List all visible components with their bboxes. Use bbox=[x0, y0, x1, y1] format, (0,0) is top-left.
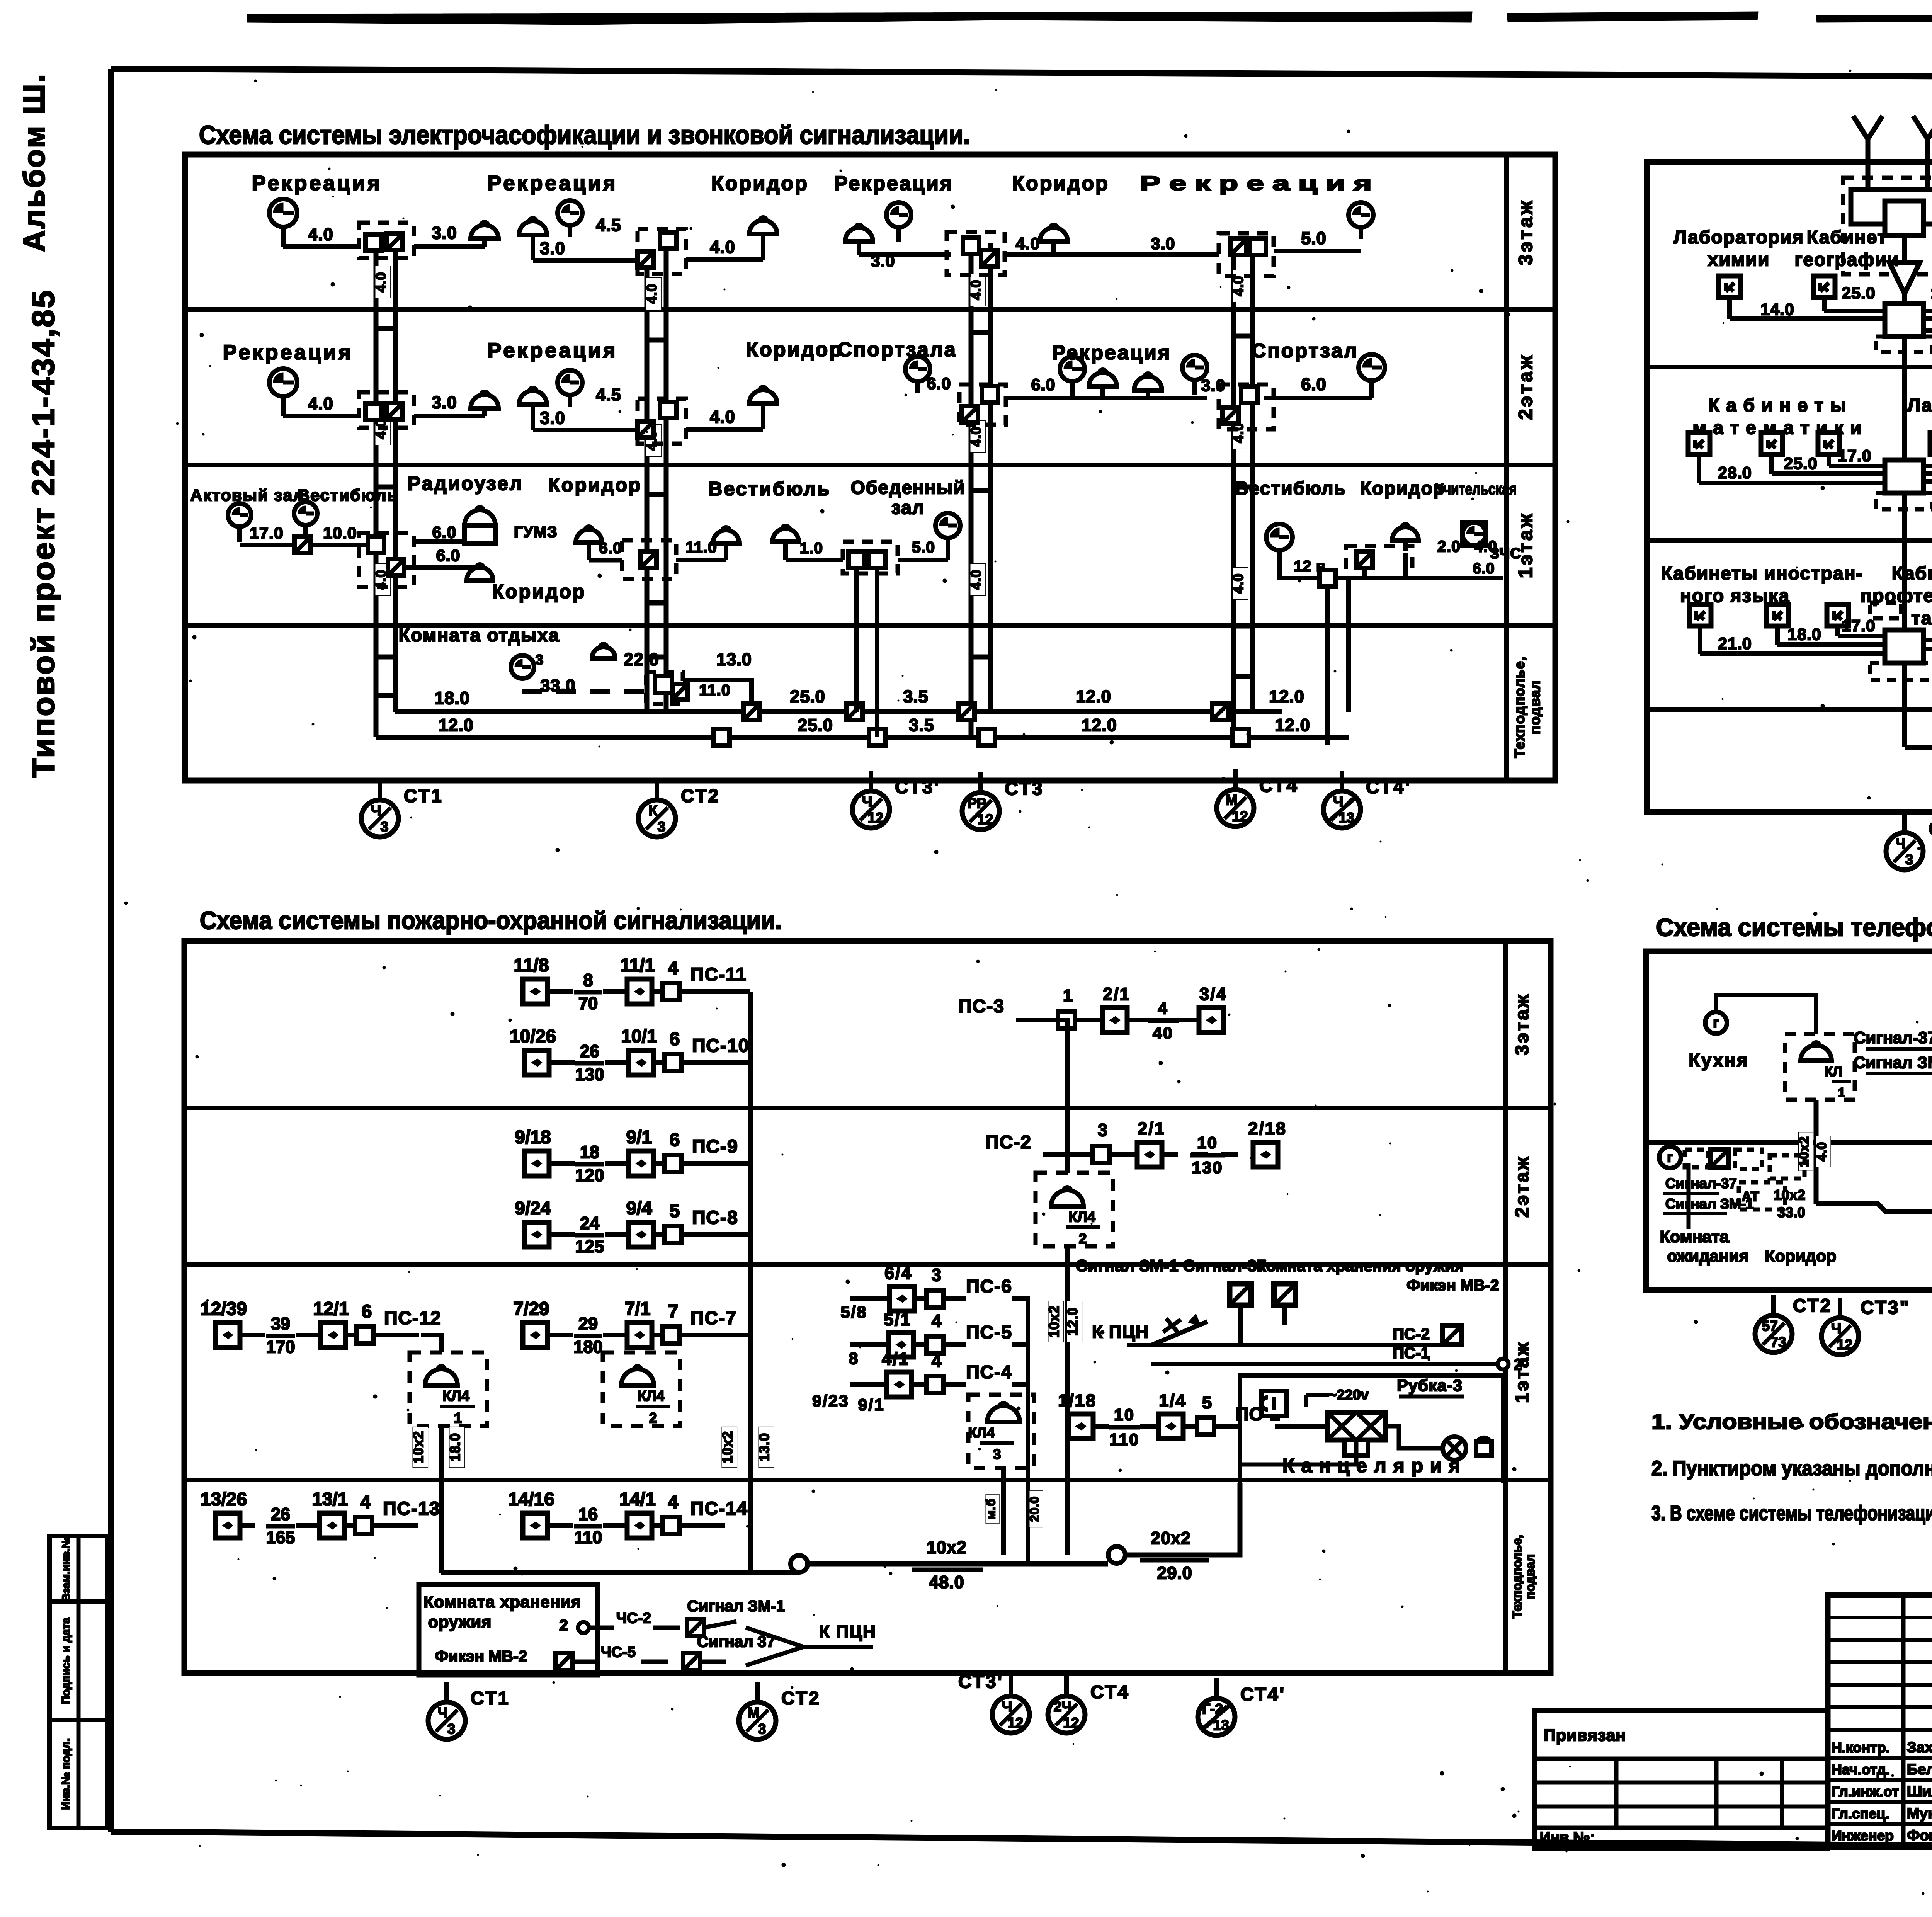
svg-text:СТ1: СТ1 bbox=[1929, 819, 1932, 839]
svg-text:М: М bbox=[748, 1705, 760, 1721]
svg-text:Гл.инж.от: Гл.инж.от bbox=[1832, 1784, 1899, 1800]
wire box to bell 3fl-1 bbox=[414, 244, 485, 249]
svg-text:ПС-8: ПС-8 bbox=[692, 1208, 738, 1228]
fire box items2 bbox=[435, 1633, 775, 1670]
svg-text:1: 1 bbox=[454, 1410, 462, 1426]
svg-text:ПС-6: ПС-6 bbox=[966, 1276, 1012, 1297]
svg-text:3: 3 bbox=[1905, 852, 1913, 867]
tv distributor 2fl-l bbox=[1876, 460, 1932, 509]
fire chain ПС-1 bbox=[1058, 1391, 1306, 1449]
phone stations bbox=[1755, 1295, 1832, 1352]
svg-text:120: 120 bbox=[575, 1165, 604, 1185]
clock 1fl-2 bbox=[294, 502, 317, 542]
svg-text:6.0: 6.0 bbox=[1473, 560, 1495, 577]
fire riser KL4-3 bbox=[1001, 1468, 1006, 1555]
title block revision grid bbox=[1828, 1595, 1932, 1847]
clock floor label column bbox=[1504, 155, 1509, 781]
station CT1 bbox=[361, 780, 443, 837]
junction 1fl lower bbox=[388, 559, 404, 575]
fire chain ПС-7 bbox=[513, 1299, 737, 1357]
wire 1fl-r drop1 bbox=[1325, 586, 1330, 745]
svg-text:Кабинет: Кабинет bbox=[1807, 227, 1887, 248]
svg-text:170: 170 bbox=[266, 1337, 295, 1357]
svg-text:АТ: АТ bbox=[1742, 1189, 1759, 1204]
riser tie marks bbox=[1233, 334, 1253, 339]
phone riser1 labels bbox=[1797, 1132, 1813, 1171]
svg-text:ПС-11: ПС-11 bbox=[690, 964, 747, 985]
svg-text:24: 24 bbox=[580, 1213, 599, 1233]
tv distributor 3fl-l bbox=[1876, 303, 1932, 352]
svg-text:Сигнал-37: Сигнал-37 bbox=[1665, 1175, 1737, 1191]
svg-text:Рубка-3: Рубка-3 bbox=[1397, 1376, 1463, 1395]
fire divider 2/1 bbox=[184, 1262, 1551, 1267]
wire 3fl-3 right1 bbox=[1054, 252, 1219, 257]
svg-text:10х2: 10х2 bbox=[1046, 1305, 1062, 1338]
svg-text:26: 26 bbox=[271, 1504, 290, 1524]
fire riser collector bbox=[748, 992, 753, 1573]
svg-text:4.0: 4.0 bbox=[1016, 235, 1040, 253]
svg-text:110: 110 bbox=[1109, 1431, 1139, 1449]
svg-text:6/4: 6/4 bbox=[884, 1263, 912, 1283]
svg-text:2.0: 2.0 bbox=[1437, 538, 1461, 555]
svg-text:3/4: 3/4 bbox=[1199, 984, 1227, 1004]
clock 2fl-3l bbox=[905, 357, 930, 393]
wire 2fl-3 bbox=[1006, 396, 1207, 400]
svg-text:10/1: 10/1 bbox=[621, 1026, 657, 1047]
svg-text:СТ3: СТ3 bbox=[1005, 779, 1044, 799]
svg-text:8: 8 bbox=[849, 1349, 859, 1368]
svg-text:4: 4 bbox=[932, 1351, 942, 1371]
riser tie marks bbox=[376, 326, 395, 331]
dashed junction box 3fl-1 bbox=[359, 223, 414, 258]
svg-text:1/4: 1/4 bbox=[1159, 1391, 1187, 1410]
svg-text:Шилов: Шилов bbox=[1907, 1783, 1932, 1800]
phone riser1 bbox=[1814, 1100, 1819, 1204]
svg-text:9/24: 9/24 bbox=[515, 1198, 551, 1219]
fire bell KL4-1 bbox=[410, 1352, 487, 1426]
svg-text:13.0: 13.0 bbox=[716, 650, 752, 669]
tv outlet r2-3 bbox=[1818, 433, 1840, 454]
svg-text:Фикэн МВ-2: Фикэн МВ-2 bbox=[435, 1647, 527, 1665]
fire chain ПС-3 3fl bbox=[958, 984, 1227, 1043]
title block outer bbox=[1828, 1595, 1932, 1847]
svg-text:2Ч: 2Ч bbox=[1054, 1699, 1072, 1715]
fire stations bbox=[428, 1682, 510, 1739]
fire K PCN arrow bbox=[746, 1622, 876, 1665]
svg-text:18.0: 18.0 bbox=[1787, 625, 1821, 644]
svg-text:Захарова: Захарова bbox=[1907, 1739, 1932, 1756]
phone Кухня bbox=[1689, 995, 1816, 1071]
svg-text:3: 3 bbox=[932, 1265, 942, 1285]
svg-text:2этаж: 2этаж bbox=[1512, 1155, 1532, 1218]
svg-text:57: 57 bbox=[1762, 1318, 1777, 1334]
svg-text:3этаж: 3этаж bbox=[1515, 199, 1536, 265]
dashed junction box 3fl-4 bbox=[1219, 233, 1274, 276]
svg-text:Ч: Ч bbox=[371, 803, 381, 818]
phone outer box bbox=[1646, 951, 1932, 1290]
svg-text:3.5: 3.5 bbox=[903, 687, 929, 706]
svg-text:Обеденный: Обеденный bbox=[850, 478, 965, 498]
tv outer box bbox=[1647, 162, 1932, 812]
svg-text:7/1: 7/1 bbox=[625, 1299, 651, 1319]
svg-text:Коридор: Коридор bbox=[492, 581, 586, 602]
svg-text:ПС-14: ПС-14 bbox=[690, 1499, 748, 1519]
wire junctions lower bbox=[713, 729, 730, 745]
svg-text:9/1: 9/1 bbox=[626, 1127, 652, 1148]
junction cluster basement bbox=[646, 672, 688, 704]
svg-text:СТ2: СТ2 bbox=[781, 1688, 820, 1709]
svg-text:2: 2 bbox=[1079, 1231, 1087, 1247]
fire label подвал bbox=[1510, 1535, 1537, 1619]
svg-text:4.0: 4.0 bbox=[1815, 1142, 1829, 1161]
fire junction circle bbox=[791, 1555, 808, 1572]
dashed wire basement bbox=[522, 689, 646, 694]
fire wire ПС-2 drop bbox=[1065, 1155, 1070, 1173]
svg-text:4.0: 4.0 bbox=[308, 394, 333, 413]
fire junction circle2 bbox=[1108, 1546, 1125, 1563]
tv outlet r3-1 bbox=[1719, 276, 1740, 298]
tv station CT1 bbox=[1886, 813, 1932, 870]
clock 3fl-2 bbox=[558, 201, 582, 237]
svg-text:12/39: 12/39 bbox=[201, 1299, 247, 1319]
dashed junction box 3fl-2 bbox=[638, 229, 686, 274]
svg-text:М: М bbox=[1226, 792, 1238, 808]
svg-text:11/8: 11/8 bbox=[514, 955, 549, 976]
svg-text:2. Пунктиром указаны дополнени: 2. Пунктиром указаны дополнения для вари… bbox=[1651, 1457, 1932, 1480]
svg-text:12.0: 12.0 bbox=[1082, 715, 1117, 735]
svg-text:4/1: 4/1 bbox=[882, 1349, 910, 1369]
wire 2fl-4 bbox=[1264, 396, 1372, 400]
svg-text:Ч: Ч bbox=[1896, 835, 1906, 851]
svg-text:26: 26 bbox=[580, 1041, 599, 1061]
fire chain ПС-14 basement bbox=[508, 1489, 748, 1547]
svg-text:6.0: 6.0 bbox=[436, 546, 461, 565]
svg-text:Привязан: Привязан bbox=[1544, 1726, 1626, 1745]
clock 2fl-3n bbox=[1182, 355, 1207, 395]
svg-text:14.0: 14.0 bbox=[1760, 300, 1794, 319]
svg-text:1. Условные обозначения см. ли: 1. Условные обозначения см. лист СС-2. bbox=[1651, 1409, 1932, 1434]
tv bus 3fl left bbox=[1730, 316, 1885, 321]
svg-text:2: 2 bbox=[649, 1410, 657, 1426]
svg-text:Кабинеты иностран-: Кабинеты иностран- bbox=[1661, 563, 1863, 584]
tv outlet r2-2 bbox=[1761, 433, 1782, 454]
riser CT1 lines bbox=[376, 243, 395, 737]
svg-text:5: 5 bbox=[1202, 1393, 1213, 1412]
tv floor divider 1/bas bbox=[1647, 707, 1932, 712]
tv basement wire 18.0 bbox=[1905, 745, 1932, 750]
svg-text:6.0: 6.0 bbox=[432, 523, 457, 542]
svg-text:12/1: 12/1 bbox=[313, 1299, 349, 1319]
svg-text:8: 8 bbox=[583, 970, 593, 990]
riser cable size labels bbox=[968, 274, 986, 306]
svg-text:165: 165 bbox=[266, 1527, 295, 1547]
svg-text:КЛ4: КЛ4 bbox=[968, 1425, 995, 1441]
svg-text:125: 125 bbox=[575, 1237, 604, 1256]
wire 1fl-1 bbox=[240, 543, 375, 547]
tv antenna 2 bbox=[1913, 116, 1932, 166]
junction 1fl-r bbox=[1356, 552, 1372, 568]
svg-text:20х2: 20х2 bbox=[1151, 1528, 1191, 1548]
fire weapons room box bbox=[419, 1585, 598, 1675]
fire chain ПС-9 bbox=[515, 1127, 738, 1185]
riser tie marks bbox=[647, 338, 666, 343]
svg-text:Ч: Ч bbox=[1333, 794, 1343, 810]
attach table bbox=[1534, 1710, 1828, 1849]
fire riser KL4-1 labels bbox=[410, 1427, 428, 1467]
dashed box 1fl-r bbox=[1346, 546, 1412, 578]
wire 2fl-2 r bbox=[686, 427, 763, 432]
svg-text:3.0: 3.0 bbox=[432, 393, 457, 412]
bell 3fl-3a bbox=[845, 225, 873, 255]
fire security wires bbox=[1127, 1306, 1524, 1373]
svg-text:ПС-4: ПС-4 bbox=[966, 1362, 1012, 1383]
svg-text:Кухня: Кухня bbox=[1689, 1050, 1748, 1071]
svg-text:г: г bbox=[1667, 1149, 1673, 1165]
svg-text:11.0: 11.0 bbox=[699, 681, 731, 699]
svg-text:Коридор: Коридор bbox=[1360, 478, 1446, 499]
long wire lower bbox=[376, 735, 1349, 740]
svg-text:СТ4: СТ4 bbox=[1090, 1682, 1129, 1703]
svg-text:4: 4 bbox=[932, 1311, 942, 1331]
tv antenna 1 bbox=[1853, 116, 1883, 166]
svg-text:подвал: подвал bbox=[1527, 680, 1543, 734]
svg-text:6.0: 6.0 bbox=[927, 374, 951, 393]
clock 1fl-1 bbox=[228, 503, 251, 542]
svg-text:17.0: 17.0 bbox=[1930, 284, 1932, 303]
junction boxes 3fl-3 bbox=[963, 238, 979, 254]
svg-text:ЧС-5: ЧС-5 bbox=[601, 1644, 636, 1660]
bell 2fl-3m bbox=[1089, 369, 1117, 398]
svg-text:Комната хранения оружия: Комната хранения оружия bbox=[1257, 1257, 1464, 1275]
fire K PCN arrow 1fl bbox=[1092, 1314, 1207, 1345]
clock 2fl-3m bbox=[1060, 357, 1085, 397]
fire divider 3/2 bbox=[184, 1106, 1551, 1110]
svg-text:12: 12 bbox=[1837, 1337, 1852, 1352]
svg-text:оружия: оружия bbox=[428, 1613, 492, 1631]
wire 1fl-r drop2 bbox=[1346, 578, 1351, 712]
svg-text:СТ3': СТ3' bbox=[958, 1672, 1003, 1692]
wire 3fl-3 bbox=[859, 252, 951, 257]
fire divider 1/bas bbox=[184, 1478, 1551, 1482]
svg-text:Коридор: Коридор bbox=[711, 172, 809, 195]
junction box bbox=[366, 235, 382, 251]
svg-text:КЛ4: КЛ4 bbox=[638, 1388, 665, 1404]
tv splitter triangle bbox=[1889, 263, 1920, 317]
svg-text:4.0: 4.0 bbox=[968, 279, 984, 300]
tv distributor 1fl bbox=[1870, 603, 1932, 680]
svg-text:12.0: 12.0 bbox=[1065, 1307, 1080, 1336]
antenna down-leads bbox=[1851, 145, 1932, 224]
wire 1fl-r bbox=[1279, 550, 1503, 578]
phone divider bbox=[1646, 1140, 1932, 1145]
fire basement wire right2 bbox=[1125, 1483, 1240, 1555]
svg-text:25.0: 25.0 bbox=[1784, 454, 1818, 473]
bell basement bbox=[592, 644, 615, 658]
svg-text:17.0: 17.0 bbox=[1838, 447, 1872, 465]
bell 2fl-3n bbox=[1134, 373, 1162, 398]
junction 1fl-v bbox=[849, 552, 865, 568]
svg-text:Схема системы телефонизации.: Схема системы телефонизации. bbox=[1656, 913, 1932, 941]
svg-text:Спортзал: Спортзал bbox=[1252, 340, 1358, 362]
svg-text:ПС-9: ПС-9 bbox=[692, 1136, 738, 1157]
svg-text:16: 16 bbox=[578, 1504, 598, 1524]
svg-text:3.0: 3.0 bbox=[540, 238, 565, 258]
dashed box 1fl bbox=[359, 533, 414, 587]
svg-text:Инженер: Инженер bbox=[1832, 1828, 1894, 1844]
svg-text:4: 4 bbox=[668, 958, 679, 978]
svg-text:25.0: 25.0 bbox=[1842, 284, 1876, 303]
svg-text:7: 7 bbox=[668, 1301, 679, 1322]
svg-text:4.0: 4.0 bbox=[644, 283, 660, 304]
fire rubka label bbox=[1397, 1376, 1464, 1397]
svg-text:2этаж: 2этаж bbox=[1515, 353, 1536, 420]
svg-text:25.0: 25.0 bbox=[798, 715, 833, 735]
tv riser1 bbox=[1902, 337, 1907, 460]
bell 1fl-v bbox=[772, 526, 799, 560]
svg-text:Рекреация: Рекреация bbox=[223, 341, 353, 364]
fire kancelyaria box bbox=[1240, 1375, 1503, 1483]
svg-text:Типовой проект 224-1-434,85: Типовой проект 224-1-434,85 bbox=[26, 289, 61, 778]
dashed junction box 2fl-1 bbox=[359, 392, 414, 428]
svg-text:9/1: 9/1 bbox=[858, 1396, 885, 1414]
junction box 1fl riser bbox=[368, 537, 384, 553]
tv outlet r3-2 bbox=[1813, 276, 1835, 298]
fire chain wires to riser bbox=[719, 989, 750, 994]
riser cable size labels bbox=[644, 278, 662, 310]
wire 1fl gumz bbox=[414, 539, 464, 544]
svg-text:СТ2: СТ2 bbox=[1793, 1296, 1832, 1316]
svg-text:Сигнал ЗМ-1 Сигнал-37: Сигнал ЗМ-1 Сигнал-37 bbox=[1076, 1257, 1266, 1275]
svg-text:4: 4 bbox=[1158, 999, 1168, 1018]
svg-text:6: 6 bbox=[670, 1029, 680, 1050]
svg-text:2: 2 bbox=[1514, 1356, 1524, 1373]
svg-text:ГУМЗ: ГУМЗ bbox=[514, 523, 558, 541]
riser cable size labels bbox=[373, 266, 391, 298]
svg-text:6.0: 6.0 bbox=[1301, 374, 1327, 394]
svg-text:12: 12 bbox=[1232, 808, 1248, 824]
svg-text:130: 130 bbox=[575, 1065, 604, 1084]
dashed box 1fl-m bbox=[622, 540, 676, 579]
svg-text:Ч: Ч bbox=[862, 794, 872, 810]
obed hall drops bbox=[854, 568, 859, 712]
clock 2fl-2 bbox=[558, 370, 582, 407]
clock 3fl-1 bbox=[269, 199, 297, 247]
double clock 1fl-r bbox=[1463, 522, 1486, 546]
svg-text:2/1: 2/1 bbox=[1103, 984, 1131, 1004]
svg-text:КЛ4: КЛ4 bbox=[442, 1388, 469, 1404]
svg-text:ПС-2: ПС-2 bbox=[1393, 1325, 1430, 1343]
svg-text:110: 110 bbox=[574, 1527, 602, 1547]
svg-text:Учительская: Учительская bbox=[1435, 480, 1517, 498]
junction box diag bbox=[386, 234, 403, 250]
svg-text:Актовый зал: Актовый зал bbox=[190, 486, 304, 505]
fire chain ПС-8 bbox=[515, 1198, 738, 1256]
svg-text:6.0: 6.0 bbox=[1031, 376, 1056, 394]
svg-text:180: 180 bbox=[573, 1337, 602, 1357]
svg-text:3.0: 3.0 bbox=[432, 223, 457, 243]
svg-text:3: 3 bbox=[993, 1446, 1001, 1462]
svg-text:4.0: 4.0 bbox=[373, 272, 389, 292]
bell 2fl-1 bbox=[471, 391, 498, 416]
svg-text:СТ1: СТ1 bbox=[404, 786, 443, 806]
svg-text:ПС-7: ПС-7 bbox=[690, 1308, 737, 1328]
svg-text:3. В схеме системы телефонизац: 3. В схеме системы телефонизации нумерац… bbox=[1651, 1502, 1932, 1525]
svg-text:12.0: 12.0 bbox=[438, 715, 474, 735]
tv bus 1fl bbox=[1698, 625, 1702, 654]
svg-text:ожидания: ожидания bbox=[1667, 1247, 1748, 1266]
fire bell KL4-2 bbox=[603, 1352, 680, 1426]
svg-text:Рекреация: Рекреация bbox=[488, 172, 618, 195]
svg-text:1этаж: 1этаж bbox=[1515, 512, 1536, 578]
svg-text:10х2: 10х2 bbox=[410, 1431, 426, 1463]
dashed junction box 3fl-3 bbox=[947, 232, 1005, 275]
svg-text:9/18: 9/18 bbox=[515, 1127, 551, 1148]
svg-text:70: 70 bbox=[578, 993, 598, 1013]
svg-text:22.0: 22.0 bbox=[624, 650, 659, 669]
svg-text:13/1: 13/1 bbox=[312, 1489, 348, 1510]
tv floor divider 3/2 bbox=[1647, 365, 1932, 369]
svg-text:Радиоузел: Радиоузел bbox=[408, 473, 524, 494]
svg-text:3: 3 bbox=[381, 819, 389, 835]
riser CT3 lines bbox=[971, 243, 990, 737]
wire 2fl-2 bbox=[533, 428, 638, 432]
fire security boxes bbox=[1229, 1283, 1296, 1306]
svg-text:3: 3 bbox=[447, 1721, 456, 1737]
svg-text:СТ1: СТ1 bbox=[471, 1688, 510, 1709]
fire riser KL4-2 labels bbox=[719, 1427, 737, 1467]
svg-text:6.0: 6.0 bbox=[599, 539, 622, 557]
svg-text:1.0: 1.0 bbox=[800, 539, 823, 557]
svg-text:Коридор: Коридор bbox=[746, 338, 843, 361]
tv outlet r1-2 bbox=[1767, 604, 1788, 626]
svg-text:48.0: 48.0 bbox=[929, 1572, 964, 1592]
svg-text:3: 3 bbox=[536, 652, 544, 668]
svg-text:10х2: 10х2 bbox=[1774, 1187, 1805, 1203]
svg-text:ПС-1: ПС-1 bbox=[1393, 1344, 1430, 1362]
clock 2fl-4r bbox=[1359, 354, 1385, 381]
svg-text:Коридор: Коридор bbox=[1765, 1247, 1836, 1266]
svg-text:КЛ: КЛ bbox=[1825, 1064, 1842, 1079]
wire 1fl lower bbox=[404, 565, 480, 570]
svg-text:Лаборатория: Лаборатория bbox=[1907, 395, 1932, 416]
svg-text:Коридор: Коридор bbox=[1012, 172, 1109, 195]
svg-text:6: 6 bbox=[670, 1130, 680, 1150]
svg-text:Фомкин: Фомкин bbox=[1907, 1827, 1932, 1844]
fire bell KL4 2fl bbox=[1036, 1173, 1113, 1247]
svg-text:СТ4': СТ4' bbox=[1240, 1684, 1286, 1705]
junction 1fl-m bbox=[640, 552, 656, 568]
svg-text:ПС-10: ПС-10 bbox=[692, 1036, 750, 1056]
svg-text:ЧС-2: ЧС-2 bbox=[616, 1610, 651, 1626]
bell 3fl-2r bbox=[749, 217, 777, 234]
svg-text:10х2: 10х2 bbox=[719, 1431, 735, 1463]
fire riser 2fl bbox=[1065, 1246, 1070, 1555]
svg-text:зал: зал bbox=[891, 498, 925, 518]
wire 3fl-2 bbox=[533, 258, 638, 263]
fire riser KL4-3 labels bbox=[984, 1494, 999, 1524]
svg-text:18.0: 18.0 bbox=[447, 1433, 463, 1461]
svg-text:130: 130 bbox=[1192, 1158, 1223, 1177]
svg-text:5: 5 bbox=[670, 1201, 680, 1221]
fire socket bbox=[1262, 1391, 1286, 1416]
scan artifact: dark page top edge bbox=[247, 12, 1932, 36]
svg-text:5/1: 5/1 bbox=[884, 1310, 912, 1329]
clock 1fl-v bbox=[935, 513, 960, 538]
svg-text:Рекреация: Рекреация bbox=[834, 172, 953, 195]
tv floor divider 2/1 bbox=[1647, 538, 1932, 543]
svg-text:9/23: 9/23 bbox=[812, 1392, 849, 1410]
svg-text:4.0: 4.0 bbox=[1230, 573, 1246, 594]
